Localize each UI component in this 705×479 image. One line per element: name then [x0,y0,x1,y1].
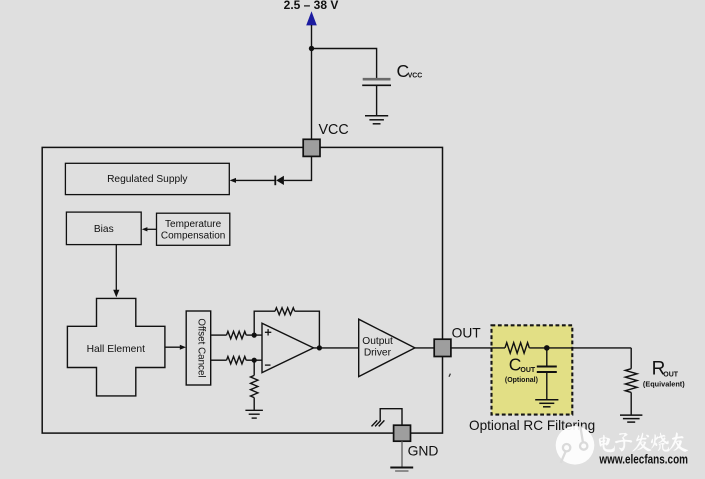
arrow: hall element to offset cancel [165,346,181,348]
wire: output driver to OUT pin [415,347,435,349]
svg-text:OUT: OUT [520,367,536,374]
watermark logo (elecfans) [556,426,595,465]
ground (CVCC) [365,115,388,117]
op-amp (chopper amplifier) [262,323,314,372]
svg-text:OUT: OUT [663,372,679,379]
svg-text:Compensation: Compensation [161,231,225,242]
block: Offset Cancel (vertical text) [186,311,211,385]
resistor: - input to ground [253,360,255,375]
stray comma mark [449,374,450,377]
block: Bias [66,212,141,245]
watermark text: dianzi fashaoyou [599,432,688,452]
supply arrow (blue, pointing up) [306,11,317,25]
resistor (filter series) [505,343,529,354]
svg-text:Driver: Driver [364,347,392,358]
svg-text:VCC: VCC [319,122,349,138]
wire: op-amp to output driver [314,347,359,349]
diode (reverse protection) [276,176,284,185]
svg-text:www.elecfans.com: www.elecfans.com [599,453,688,467]
resistor: offset cancel to op-amp + input [211,334,227,336]
block: Temperature Compensation [157,213,230,245]
svg-text:OUT: OUT [452,325,482,340]
wire: diode to regulated supply + arrowhead [232,179,275,181]
capacitor COUT [546,348,548,366]
wire: GND pin to internal ground [380,409,402,426]
svg-text:Output: Output [362,336,393,347]
block: Regulated Supply [65,163,229,194]
svg-text:(Equivalent): (Equivalent) [643,379,685,388]
junction: filter node [544,345,550,351]
svg-text:Hall Element: Hall Element [87,344,146,355]
wire: supply to VCC pin [311,25,313,139]
svg-text:Regulated Supply: Regulated Supply [107,174,188,185]
GND pin (terminal) [394,425,411,441]
svg-text:2.5 – 38 V: 2.5 – 38 V [284,0,339,12]
wire: VCC pin to diode [284,156,312,180]
IC boundary box [42,147,442,433]
ground (ROUT) [620,414,642,416]
chassis ground (internal) [372,420,378,426]
ground (COUT) [535,399,558,401]
ground (op-amp input resistor) [245,409,263,411]
wire: OUT pin to filter resistor [451,347,505,349]
arrow: temperature compensation to bias [147,228,157,230]
junction: supply node [309,46,314,51]
feedback resistor loop [254,311,275,335]
resistor: offset cancel to op-amp - input [211,359,227,361]
hall element (cross) [67,298,164,396]
resistor ROUT (equivalent load) [630,348,632,369]
external ground stub [401,441,403,467]
junction: - input node [252,358,257,363]
svg-text:Temperature: Temperature [165,219,222,230]
arrow: bias to hall element [115,245,117,291]
output driver (triangle) [359,319,415,376]
svg-text:GND: GND [408,443,439,459]
VCC pin (terminal) [303,139,320,156]
optional RC filter box (yellow dashed) [492,325,573,414]
capacitor CVCC [363,78,391,81]
svg-text:(Optional): (Optional) [505,377,538,384]
junction: op-amp output node [317,345,322,350]
svg-text:Bias: Bias [94,224,114,235]
svg-text:VCC: VCC [408,73,423,80]
junction: + input node [252,333,257,338]
OUT pin (terminal) [434,339,451,356]
wire: supply node to CVCC [312,49,377,79]
svg-text:Offset Cancel: Offset Cancel [195,318,206,377]
